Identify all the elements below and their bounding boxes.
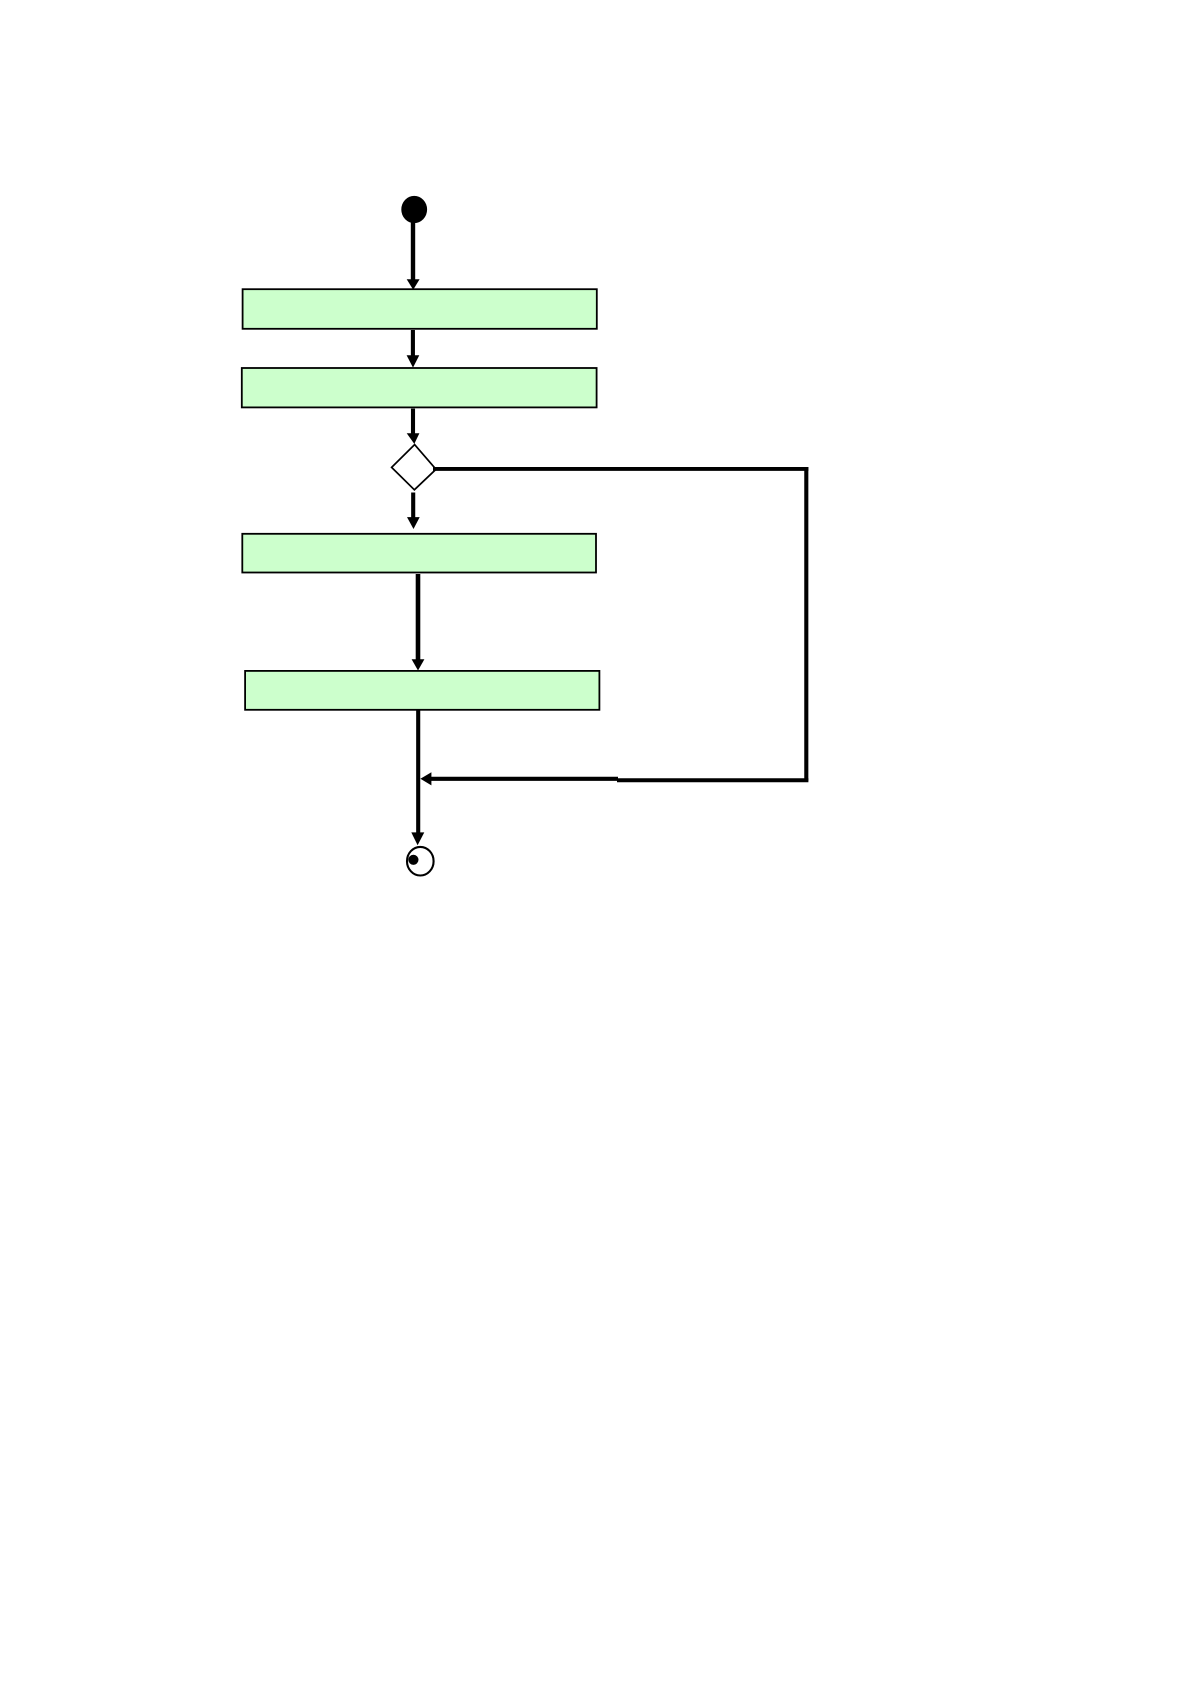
decision diamond [392,445,436,490]
arrowhead into activity 1 [407,279,420,290]
start node (initial state filled circle) [401,196,427,223]
activity box 1 (green rectangle) [243,289,597,329]
wire: arrow shaft from activity 3 down to activity 4 [416,574,421,661]
final node outer circle [407,847,434,876]
wire: arrow shaft from activity 2 down to decision diamond [411,409,415,435]
wire: bottom horizontal return line (left part) [430,777,619,781]
wire: vertical line from activity 4 down to final node (passes return junction) [416,710,420,834]
wire: bottom horizontal return line (right part) [617,778,808,782]
activity box 4 (green rectangle) [245,671,599,710]
arrowhead of return line pointing left into main vertical line [420,772,431,785]
arrowhead into activity 4 [412,659,425,670]
arrowhead into decision diamond [407,433,420,444]
wire: arrow shaft from activity 1 down to activity 2 [411,330,415,357]
arrowhead into activity 2 [407,355,420,367]
wire: horizontal branch line from diamond right vertex to the right [433,467,808,471]
wire: arrow shaft from diamond bottom toward activity 3 [411,493,415,519]
activity box 2 (green rectangle) [242,368,597,407]
arrowhead toward activity 3 [407,517,420,529]
wire: arrow shaft from start node down to activity 1 [411,221,415,281]
final node inner dot [408,855,418,865]
activity box 3 (green rectangle) [242,534,596,573]
arrowhead into final node [411,832,424,845]
wire: right-side vertical bypass line going down [804,467,808,781]
